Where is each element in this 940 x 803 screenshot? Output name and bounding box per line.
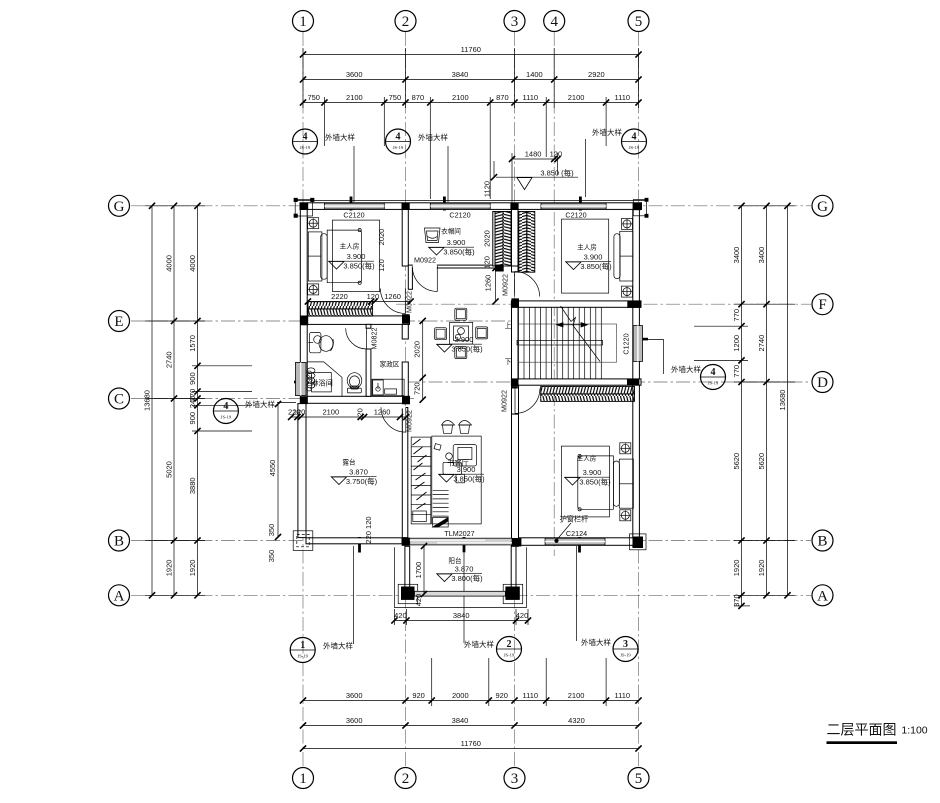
svg-text:1110: 1110 [615, 691, 631, 700]
svg-text:M0922: M0922 [405, 410, 414, 432]
dimension chain balcony dims [391, 611, 531, 624]
svg-text:M0922: M0922 [500, 390, 509, 412]
axis bubble 2 top [395, 11, 416, 32]
dimension chain bottom overall 11760 [300, 739, 642, 752]
svg-text:11760: 11760 [461, 45, 481, 54]
svg-text:3.850(每): 3.850(每) [453, 474, 485, 484]
svg-text:1920: 1920 [165, 560, 174, 577]
column C/1 [300, 396, 307, 403]
door M0922 bedroom2 [515, 389, 540, 414]
column C/2 [402, 396, 410, 404]
axis line A [131, 594, 811, 596]
stair direction arrows [557, 323, 588, 327]
axis line F [396, 303, 811, 305]
svg-text:1920: 1920 [757, 560, 766, 577]
column E/1 [301, 316, 309, 326]
column G/5 [633, 203, 641, 211]
detail callout top 3 [592, 127, 647, 154]
svg-text:B: B [817, 534, 827, 550]
window C2120 no.1 [324, 203, 384, 209]
detail callout bottom 3 [581, 637, 638, 662]
svg-text:11760: 11760 [461, 739, 481, 748]
svg-text:3: 3 [511, 14, 519, 30]
dimension chain top axis spans [300, 70, 642, 83]
svg-text:JS-19: JS-19 [221, 415, 232, 420]
column G/2 [402, 203, 410, 210]
svg-text:3: 3 [623, 639, 628, 650]
svg-text:M0822: M0822 [370, 328, 379, 350]
section cut marks on wall B [358, 537, 361, 553]
axis bubble 1 top [293, 11, 314, 32]
svg-text:JS-19: JS-19 [297, 654, 308, 659]
wall D wall [511, 379, 641, 385]
elevation mark terrace [331, 468, 378, 487]
dimension chain left axis spans [165, 203, 178, 599]
bedroom1 rug [333, 220, 380, 292]
svg-text:3.900: 3.900 [447, 238, 466, 247]
axis bubble 1 bottom [293, 768, 314, 789]
svg-text:1400: 1400 [526, 70, 543, 79]
balcony pier east [503, 584, 523, 603]
svg-text:220 120: 220 120 [364, 516, 373, 543]
column D/3 [511, 379, 518, 386]
window C1220 [633, 326, 642, 362]
axis bubble G right [812, 195, 833, 216]
svg-text:120: 120 [483, 256, 492, 269]
svg-text:M0922: M0922 [501, 274, 510, 296]
svg-text:JS-19: JS-19 [300, 145, 311, 150]
svg-text:900: 900 [188, 372, 197, 385]
svg-text:下: 下 [505, 358, 512, 366]
svg-text:2020: 2020 [377, 229, 386, 246]
svg-text:120: 120 [355, 408, 364, 421]
wall axis1 west exterior [300, 209, 307, 403]
title 二层平面图 1:100 [827, 722, 928, 745]
svg-text:2100: 2100 [568, 93, 585, 102]
svg-text:120: 120 [377, 259, 386, 272]
svg-text:外墙大样: 外墙大样 [325, 132, 355, 142]
door M0922 stair hall [519, 396, 540, 398]
elevation mark closet [428, 238, 475, 257]
svg-text:3.900: 3.900 [583, 468, 602, 477]
hatched band bedroom1 wardrobe at E [308, 302, 373, 316]
wall terrace east wall [402, 408, 408, 538]
axis bubble 5 bottom [628, 768, 649, 789]
svg-text:3.750(每): 3.750(每) [346, 476, 378, 486]
svg-text:2020: 2020 [483, 230, 492, 247]
chair dining east [476, 327, 488, 339]
axis line C [131, 398, 414, 400]
balustrade leader dot [554, 523, 571, 543]
wall closet east wall [493, 212, 495, 267]
dimension chain left detail dims [188, 203, 201, 599]
study platform [432, 436, 481, 524]
closet basin [425, 228, 441, 243]
column B/3 [512, 538, 521, 546]
housekeeping counter [372, 379, 404, 396]
extension lines top dims [303, 48, 639, 199]
staircase main [517, 307, 617, 379]
svg-text:3: 3 [511, 771, 519, 787]
svg-text:JS-19: JS-19 [620, 653, 631, 658]
leader right callout [643, 340, 664, 375]
svg-text:上: 上 [505, 321, 512, 330]
column D/3 stub [512, 386, 518, 388]
axis bubble 4 top [544, 11, 565, 32]
extension lines balcony dims [394, 609, 528, 625]
section cut mark on window C0920 [294, 381, 307, 384]
svg-text:2740: 2740 [757, 335, 766, 352]
svg-text:1110: 1110 [615, 93, 631, 102]
bedside table bedroom1 upper [308, 218, 319, 229]
dimension chain terrace top dims [288, 408, 409, 421]
svg-text:2: 2 [402, 771, 410, 787]
balcony pier west [398, 584, 418, 603]
svg-text:720: 720 [413, 382, 422, 395]
svg-text:外墙大样: 外墙大样 [671, 364, 701, 374]
detail callout top 1 [293, 129, 356, 154]
svg-text:120: 120 [550, 150, 563, 159]
svg-text:3.900: 3.900 [584, 253, 603, 262]
svg-text:4: 4 [396, 132, 401, 143]
wall bath east wall stub [366, 324, 371, 328]
elevation mark study [438, 465, 485, 484]
svg-text:JS-19: JS-19 [708, 381, 719, 386]
svg-text:C2120: C2120 [343, 211, 364, 220]
svg-text:3.850 (每): 3.850 (每) [540, 168, 574, 178]
svg-text:1200: 1200 [732, 335, 741, 352]
column B/terrace [402, 538, 410, 546]
wall axis2 wall upper [402, 324, 408, 339]
toilet [347, 373, 362, 393]
svg-text:3.800(每): 3.800(每) [451, 573, 483, 583]
dim 2020/720 center [422, 321, 424, 400]
dining table [450, 322, 473, 344]
svg-text:4: 4 [550, 14, 558, 30]
svg-text:4000: 4000 [165, 255, 174, 272]
dimension chain bedroom1 south dims [305, 292, 414, 305]
elevation mark balcony [436, 565, 483, 584]
dimension chain right axis spans [757, 203, 770, 599]
section cut mark on window C1220 [633, 338, 648, 341]
pilaster frame G/5 [633, 198, 648, 217]
hatched band bedroom2 wardrobe at D [541, 386, 635, 401]
column F/5 [627, 301, 641, 308]
svg-text:3.850(每): 3.850(每) [579, 477, 611, 487]
svg-text:3.850(每): 3.850(每) [343, 261, 375, 271]
svg-text:1260: 1260 [384, 292, 401, 301]
window C2120 no.3 [541, 203, 606, 209]
svg-text:1: 1 [300, 640, 305, 651]
terrace corner pilaster B/1 [293, 531, 313, 551]
bedside table bedroom3 upper [622, 218, 633, 229]
wall axis5 east exterior [633, 209, 640, 546]
svg-text:5020: 5020 [165, 461, 174, 478]
svg-text:外墙大样: 外墙大样 [592, 127, 622, 137]
svg-text:5620: 5620 [757, 453, 766, 470]
axis line 4 [553, 32, 555, 556]
svg-text:420: 420 [414, 594, 423, 607]
detail callout bottom 1 [290, 638, 353, 663]
svg-text:JS-19: JS-19 [393, 145, 404, 150]
axis bubble G left [109, 195, 130, 216]
svg-text:350: 350 [267, 524, 276, 537]
door M0922 bedroom3 (top right) [515, 272, 540, 297]
bedroom2 rug [561, 446, 609, 517]
svg-text:3840: 3840 [453, 611, 470, 620]
axis bubble A right [812, 585, 833, 606]
svg-text:衣帽间: 衣帽间 [441, 227, 461, 236]
svg-text:C2120: C2120 [565, 211, 586, 220]
wall axis2 closet wall [402, 209, 408, 266]
svg-text:外墙大样: 外墙大样 [245, 399, 275, 409]
wall terrace south parapet [306, 538, 402, 544]
axis bubble E left [109, 311, 130, 332]
svg-text:13680: 13680 [778, 390, 787, 411]
svg-text:1260: 1260 [484, 275, 493, 292]
svg-text:5620: 5620 [732, 453, 741, 470]
callout leaders bottom [354, 546, 577, 644]
bedroom2 bed [578, 454, 634, 511]
dim 1700 balcony [423, 546, 425, 594]
dimension chain top window dims [300, 93, 642, 106]
svg-text:2100: 2100 [452, 93, 469, 102]
svg-text:3400: 3400 [732, 247, 741, 264]
axis line 1 [302, 32, 304, 767]
axis bubble 2 bottom [395, 768, 416, 789]
svg-text:F: F [818, 297, 826, 313]
svg-text:120: 120 [367, 292, 380, 301]
dimension chain left overall [143, 203, 156, 599]
bedside table bedroom1 lower [308, 284, 319, 295]
axis bubble F right [812, 294, 833, 315]
extension lines stair window dims [512, 153, 558, 205]
bedside table bedroom2 lower [620, 510, 631, 521]
elevation mark bedroom2 [564, 468, 611, 487]
svg-text:3400: 3400 [757, 247, 766, 264]
svg-text:350: 350 [267, 550, 276, 563]
svg-text:2100: 2100 [568, 691, 585, 700]
svg-text:4: 4 [711, 367, 716, 378]
study bookshelf [411, 437, 431, 524]
svg-text:3840: 3840 [452, 70, 469, 79]
svg-text:920: 920 [412, 691, 425, 700]
dimension chain bottom window dims [300, 691, 642, 704]
dimension chain top overall 11760 [300, 45, 642, 58]
axis line 3 [514, 32, 516, 767]
svg-text:120: 120 [293, 408, 306, 417]
detail callout top 2 [386, 129, 449, 154]
svg-text:5: 5 [635, 771, 643, 787]
chair dining south [455, 347, 467, 359]
svg-text:3.900: 3.900 [347, 252, 366, 261]
svg-text:240: 240 [188, 396, 197, 409]
svg-text:2100: 2100 [346, 93, 363, 102]
dimension chain stair window dims [509, 150, 562, 163]
dimension chain right detail dims [732, 203, 745, 609]
svg-text:外墙大样: 外墙大样 [323, 641, 353, 651]
towel radiator [307, 368, 315, 388]
svg-text:外墙大样: 外墙大样 [418, 132, 448, 142]
svg-text:1570: 1570 [188, 335, 197, 352]
svg-text:淋浴间: 淋浴间 [311, 379, 333, 388]
svg-text:A: A [817, 588, 828, 604]
svg-text:770: 770 [732, 365, 741, 378]
axis line D [406, 381, 811, 383]
hatched band shaft B [519, 212, 535, 273]
axis grid center lines [131, 32, 811, 767]
door M0822 bathroom [346, 328, 367, 349]
right overall 13680 [787, 206, 789, 596]
svg-text:4: 4 [223, 401, 228, 412]
svg-text:JS-19: JS-19 [504, 653, 515, 658]
svg-text:C2120: C2120 [449, 211, 470, 220]
svg-text:5: 5 [635, 14, 643, 30]
svg-text:露台: 露台 [342, 458, 356, 467]
bedroom3 rug [562, 219, 609, 293]
wall bedroom2 west wall lower [512, 414, 519, 546]
svg-text:外墙大样: 外墙大样 [464, 639, 494, 649]
bedroom3 bed [614, 231, 633, 281]
wall shaft wall stub [512, 266, 519, 272]
svg-text:2020: 2020 [413, 341, 422, 358]
svg-text:家政区: 家政区 [380, 360, 400, 369]
wall bedroom2 west wall upper [512, 385, 519, 414]
axis bubble B left [109, 530, 130, 551]
svg-text:M0922: M0922 [414, 256, 436, 265]
svg-text:870: 870 [496, 93, 509, 102]
svg-text:C1220: C1220 [622, 333, 631, 354]
dim 4550 [277, 404, 279, 537]
svg-text:370: 370 [732, 594, 741, 607]
svg-text:二层平面图: 二层平面图 [827, 722, 897, 738]
svg-text:3840: 3840 [452, 716, 469, 725]
axis bubble 3 top [504, 11, 525, 32]
window C2124 [545, 538, 605, 545]
leader left callout [277, 402, 296, 404]
extension lines right dims [694, 206, 795, 606]
study desk [434, 444, 477, 483]
svg-text:1110: 1110 [523, 691, 539, 700]
axis line G [131, 205, 811, 207]
svg-text:主人房: 主人房 [340, 242, 360, 251]
svg-text:1: 1 [299, 771, 307, 787]
svg-text:750: 750 [307, 93, 320, 102]
svg-text:1920: 1920 [732, 560, 741, 577]
svg-text:1260: 1260 [374, 408, 391, 417]
axis line 5 [638, 32, 640, 767]
wall closet return stub [408, 265, 412, 289]
svg-text:13680: 13680 [143, 390, 152, 411]
window C0920 [296, 362, 307, 395]
svg-text:4320: 4320 [568, 716, 585, 725]
balcony outline [394, 547, 526, 607]
door M0922 closet [412, 267, 437, 292]
bedside table bedroom3 lower [622, 286, 633, 297]
svg-text:3.850(每): 3.850(每) [443, 247, 475, 257]
hatched band shaft A [495, 212, 511, 267]
wall balcony east wall [511, 546, 516, 587]
axis bubble C left [109, 388, 130, 409]
wall terrace west parapet [298, 404, 306, 538]
svg-text:主人房: 主人房 [577, 454, 597, 463]
column E/2 [402, 314, 410, 324]
svg-text:900: 900 [188, 412, 197, 425]
section cut marks on wall G [350, 197, 353, 211]
svg-text:3.850(每): 3.850(每) [451, 344, 483, 354]
detail callout left [213, 399, 275, 424]
callout leaders top [354, 139, 585, 202]
door M0922 terrace [381, 407, 406, 432]
bathroom sink counter [308, 333, 333, 353]
svg-text:1480: 1480 [525, 150, 542, 159]
wall C wall west part [307, 396, 409, 403]
svg-text:A: A [114, 588, 125, 604]
door M0922 bedroom1 (axis2 wall) [380, 289, 405, 314]
svg-text:2920: 2920 [588, 70, 605, 79]
svg-text:1120: 1120 [483, 181, 492, 197]
column G/1 [300, 203, 308, 210]
svg-text:C: C [114, 392, 124, 408]
wall E wall [307, 316, 409, 325]
chair dining north [455, 308, 467, 320]
elevation 3.850 stair mid landing [496, 168, 578, 190]
chair dining west [435, 328, 447, 340]
svg-text:主人房: 主人房 [577, 243, 597, 252]
study stool 1 [442, 421, 455, 434]
axis bubble B right [812, 530, 833, 551]
wall balcony west wall [405, 546, 410, 587]
svg-text:D: D [817, 375, 828, 391]
bedroom1 bed [308, 229, 361, 285]
wall closet south wall [437, 265, 497, 268]
axis bubble 3 bottom [504, 768, 525, 789]
axis bubble D right [812, 372, 833, 393]
extension lines bottom dims [432, 658, 606, 706]
axis line 2 [405, 32, 407, 767]
wall axis2 wall lower [402, 362, 408, 396]
svg-text:2100: 2100 [322, 408, 339, 417]
svg-text:TLM2027: TLM2027 [444, 529, 474, 538]
svg-text:1920: 1920 [188, 560, 197, 577]
column F/3 [511, 298, 519, 307]
svg-text:2: 2 [402, 14, 410, 30]
svg-text:420: 420 [394, 611, 407, 620]
window C2120 no.2 [430, 203, 490, 209]
svg-text:770: 770 [732, 309, 741, 322]
svg-text:2: 2 [507, 639, 512, 650]
svg-text:3600: 3600 [346, 691, 363, 700]
svg-text:4000: 4000 [188, 255, 197, 272]
wall B wall east part [519, 538, 633, 546]
svg-text:3.900: 3.900 [457, 465, 476, 474]
svg-text:E: E [114, 314, 123, 330]
column G/3 [510, 203, 518, 210]
svg-text:420: 420 [516, 611, 529, 620]
column shaft A base [495, 265, 504, 272]
svg-text:3880: 3880 [188, 477, 197, 494]
sliding door TLM2027 [410, 538, 512, 545]
bedside table bedroom2 upper [620, 443, 631, 454]
study stool 2 [459, 421, 472, 434]
svg-text:870: 870 [412, 93, 425, 102]
svg-text:1110: 1110 [523, 93, 539, 102]
svg-text:1: 1 [299, 14, 307, 30]
svg-text:3600: 3600 [346, 70, 363, 79]
svg-text:4550: 4550 [268, 460, 277, 477]
detail callout right [671, 364, 726, 390]
svg-text:1:100: 1:100 [901, 725, 927, 737]
